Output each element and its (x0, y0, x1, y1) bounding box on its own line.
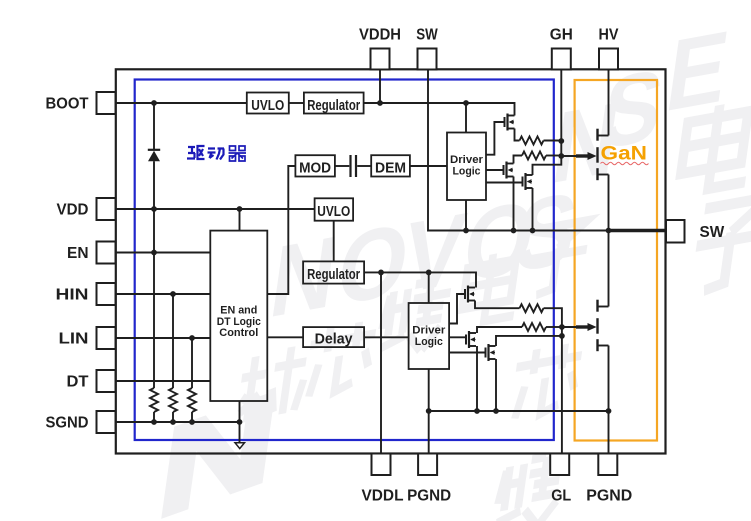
svg-text:LIN: LIN (59, 331, 89, 348)
svg-text:MOD: MOD (299, 161, 331, 177)
svg-text:Logic: Logic (453, 165, 481, 177)
svg-text:DT: DT (67, 374, 90, 391)
svg-text:Driver: Driver (450, 154, 484, 166)
svg-text:HV: HV (599, 27, 620, 44)
svg-text:GaN: GaN (601, 143, 648, 165)
svg-text:SGND: SGND (46, 415, 89, 432)
svg-text:EN: EN (67, 245, 89, 262)
svg-text:Logic: Logic (415, 336, 443, 348)
svg-text:DEM: DEM (375, 161, 406, 177)
svg-text:DT Logic: DT Logic (217, 316, 261, 328)
svg-text:HIN: HIN (56, 287, 89, 304)
svg-text:GL: GL (551, 488, 571, 505)
svg-text:Regulator: Regulator (307, 267, 360, 283)
svg-text:SW: SW (700, 224, 725, 241)
svg-text:Control: Control (219, 327, 258, 339)
svg-text:EN and: EN and (220, 305, 257, 317)
svg-text:GH: GH (550, 27, 573, 44)
svg-text:Regulator: Regulator (307, 98, 360, 114)
svg-text:UVLO: UVLO (317, 204, 350, 220)
svg-text:VDDH: VDDH (359, 27, 401, 44)
svg-text:SW: SW (416, 27, 438, 44)
svg-text:PGND: PGND (407, 488, 451, 505)
svg-text:PGND: PGND (586, 488, 632, 505)
svg-text:VDDL: VDDL (362, 488, 404, 505)
svg-text:VDD: VDD (57, 202, 89, 219)
svg-text:Driver: Driver (412, 325, 446, 337)
svg-text:UVLO: UVLO (251, 98, 284, 114)
svg-text:BOOT: BOOT (46, 96, 90, 113)
svg-text:Delay: Delay (315, 332, 353, 348)
